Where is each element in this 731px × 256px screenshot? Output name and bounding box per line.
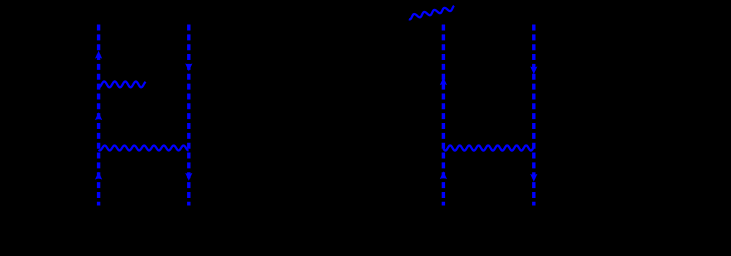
diagram 2: exchanged photon (wavy line between the two lines) [443, 145, 534, 150]
diagram 1 left line: arrow up, middle segment [95, 112, 102, 120]
diagram 1: left scalar line (dashed, arrows up) [97, 25, 100, 206]
diagram 2 right line: arrow down, bottom segment [530, 174, 537, 182]
diagram 2: right scalar line (dashed, arrows down) [532, 25, 535, 206]
diagram 1: exchanged photon (wavy line between the two lines) [99, 146, 189, 151]
diagram 1: radiated photon (short wavy line from left line) [99, 81, 146, 87]
diagram 1 right line: arrow down, bottom segment [185, 173, 192, 181]
diagram 2: left scalar line (dashed, arrows up) [442, 25, 445, 206]
diagram 1 right line: arrow down, top segment [185, 63, 192, 71]
diagram 2 right line: arrow down, top segment [530, 66, 537, 74]
diagram 1 left line: arrow up, top segment [95, 51, 102, 59]
diagram 1 left line: arrow up, bottom segment [95, 172, 102, 180]
diagram 2 left line: arrow up, top segment [440, 77, 447, 85]
diagram 2: radiated photon (diagonal wavy line, top left) [409, 6, 454, 19]
diagram 1: right scalar line (dashed, arrows down) [187, 25, 190, 206]
diagram 2 left line: arrow up, bottom segment [440, 171, 447, 179]
